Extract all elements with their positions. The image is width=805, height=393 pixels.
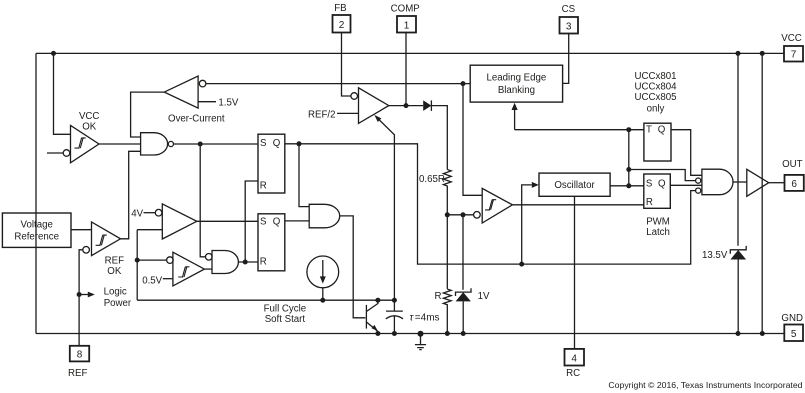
svg-text:R: R xyxy=(260,257,267,268)
svg-text:S: S xyxy=(646,178,653,189)
svg-text:3: 3 xyxy=(566,21,572,32)
svg-text:8: 8 xyxy=(77,349,83,360)
svg-text:13.5V: 13.5V xyxy=(702,250,728,261)
svg-text:Latch: Latch xyxy=(646,227,670,238)
svg-text:REF: REF xyxy=(68,368,87,379)
svg-text:6: 6 xyxy=(791,179,797,190)
svg-text:R: R xyxy=(646,197,653,208)
svg-text:only: only xyxy=(647,104,665,115)
svg-text:1V: 1V xyxy=(478,291,490,302)
svg-text:Reference: Reference xyxy=(14,231,59,242)
svg-text:UCCx804: UCCx804 xyxy=(635,82,678,93)
svg-text:4V: 4V xyxy=(131,209,143,220)
svg-text:1: 1 xyxy=(404,20,410,31)
svg-text:5: 5 xyxy=(791,329,797,340)
svg-text:R: R xyxy=(260,180,267,191)
svg-text:1.5V: 1.5V xyxy=(218,98,238,109)
svg-text:Voltage: Voltage xyxy=(21,220,53,231)
svg-text:2: 2 xyxy=(339,20,345,31)
svg-text:R: R xyxy=(435,291,442,302)
svg-text:Power: Power xyxy=(104,298,132,309)
svg-text:Copyright © 2016, Texas Instru: Copyright © 2016, Texas Instruments Inco… xyxy=(608,380,802,390)
svg-text:Logic: Logic xyxy=(104,287,127,298)
svg-text:7: 7 xyxy=(791,50,797,61)
svg-text:Over-Current: Over-Current xyxy=(168,114,225,125)
svg-text:VCC: VCC xyxy=(781,33,801,44)
svg-text:4: 4 xyxy=(571,353,577,364)
svg-text:0.65R: 0.65R xyxy=(419,174,445,185)
svg-text:Q: Q xyxy=(658,178,666,189)
svg-text:RC: RC xyxy=(566,368,580,379)
svg-text:CS: CS xyxy=(562,4,576,15)
svg-text:OK: OK xyxy=(82,122,97,133)
svg-text:REF/2: REF/2 xyxy=(308,110,335,121)
svg-text:Leading Edge: Leading Edge xyxy=(487,73,547,84)
svg-text:REF: REF xyxy=(105,256,124,267)
svg-text:OUT: OUT xyxy=(782,159,803,170)
svg-text:OK: OK xyxy=(107,266,122,277)
svg-text:Soft Start: Soft Start xyxy=(265,314,306,325)
svg-text:COMP: COMP xyxy=(391,3,420,14)
svg-text:Q: Q xyxy=(658,125,666,136)
svg-text:=4ms: =4ms xyxy=(415,312,440,323)
svg-text:S: S xyxy=(260,138,267,149)
svg-text:FB: FB xyxy=(334,3,346,14)
svg-text:0.5V: 0.5V xyxy=(142,275,162,286)
svg-text:Oscillator: Oscillator xyxy=(554,180,595,191)
svg-text:Q: Q xyxy=(273,216,281,227)
svg-text:UCCx805: UCCx805 xyxy=(635,92,677,103)
svg-text:VCC: VCC xyxy=(79,111,99,122)
svg-text:UCCx801: UCCx801 xyxy=(635,71,677,82)
svg-text:PWM: PWM xyxy=(646,217,670,228)
svg-text:Blanking: Blanking xyxy=(498,85,535,96)
svg-text:Full Cycle: Full Cycle xyxy=(264,304,307,315)
svg-text:S: S xyxy=(260,216,267,227)
svg-text:T: T xyxy=(646,125,652,136)
svg-text:Q: Q xyxy=(273,138,281,149)
svg-text:GND: GND xyxy=(781,313,803,324)
